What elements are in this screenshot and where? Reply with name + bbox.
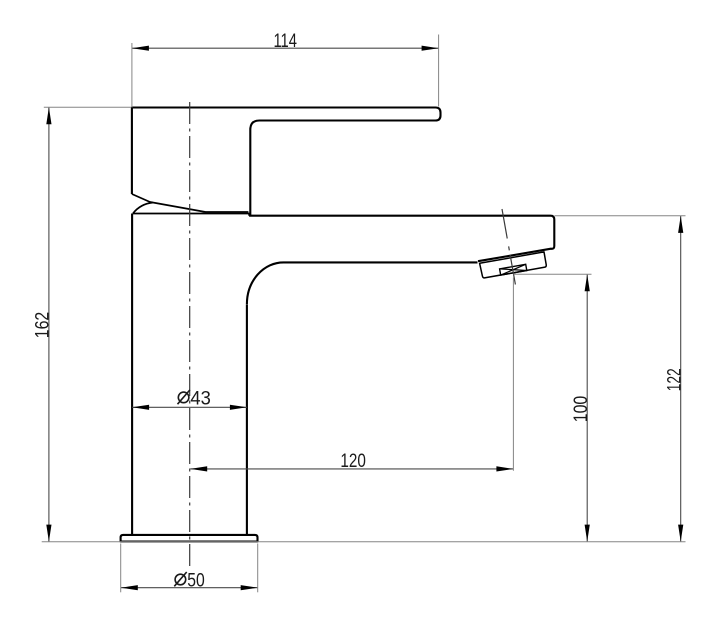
aerator outlet cross diagonal 1 — [500, 269, 527, 271]
dim 120: left arrow — [190, 466, 207, 471]
dim d50: right extension line — [257, 544, 259, 593]
body right edge — [246, 305, 248, 535]
aerator housing (tilted) — [480, 252, 547, 278]
dim 120: dimension line — [190, 468, 513, 470]
faucet handle lever and body block outline — [132, 108, 441, 216]
dim 122: top extension line (from spout top) — [555, 215, 686, 217]
dim 162: top arrow — [46, 107, 51, 124]
svg-text:162: 162 — [32, 312, 54, 339]
svg-text:122: 122 — [664, 368, 686, 391]
dim 122: bottom arrow — [678, 525, 683, 542]
dim d50: right arrow — [241, 585, 258, 590]
dim 162: top extension line — [44, 106, 131, 108]
svg-text:50: 50 — [187, 569, 205, 591]
dim 114: left extension line — [131, 43, 133, 108]
body top line under handle — [133, 214, 249, 216]
dim 162: bottom arrow — [46, 525, 51, 542]
dim 120: right extension line (from spray axis) — [512, 278, 514, 471]
svg-text:114: 114 — [273, 30, 297, 52]
spout outline: top, tip, underside slant — [249, 216, 554, 262]
dim d50: left arrow — [121, 585, 138, 590]
dim d50: diameter symbol — [174, 572, 186, 586]
dim 114: left arrow — [132, 46, 149, 51]
dim d50: left extension line — [120, 544, 122, 593]
dim 100: top extension line (from aerator) — [514, 273, 592, 275]
body left edge — [131, 214, 133, 535]
dim 100: bottom arrow — [585, 525, 590, 542]
spray axis centerline (tilted dash-dot) — [502, 209, 515, 285]
aerator outlet rectangle — [500, 264, 527, 275]
baseline ground extension line — [42, 541, 686, 543]
spout bottom line and fillet to body — [247, 262, 478, 304]
dim 162: dimension line — [48, 107, 50, 541]
dim d43: right arrow — [230, 405, 247, 410]
aerator outlet cross diagonal 2 — [501, 264, 526, 275]
dim 114: right extension line — [438, 35, 440, 107]
dim 100: top arrow — [585, 274, 590, 291]
svg-text:43: 43 — [190, 388, 211, 410]
vertical centerline of body — [189, 102, 191, 567]
base plate — [121, 535, 258, 542]
svg-text:120: 120 — [340, 450, 366, 472]
dim d50: dimension line — [121, 587, 258, 589]
svg-text:100: 100 — [570, 396, 592, 423]
dim 114: right arrow — [422, 46, 439, 51]
dim 120: right arrow — [496, 466, 513, 471]
dim 122: dimension line — [680, 216, 682, 542]
dim 114: dimension line — [132, 47, 439, 49]
dim 122: top arrow — [678, 216, 683, 233]
dim d43: dimension line — [132, 406, 247, 408]
handle skirt flare arc — [133, 203, 153, 214]
dim 100: dimension line — [586, 274, 588, 541]
dim d43: left arrow — [132, 405, 149, 410]
handle base skirt slant — [132, 194, 249, 212]
dim d43: diameter symbol — [178, 390, 190, 404]
